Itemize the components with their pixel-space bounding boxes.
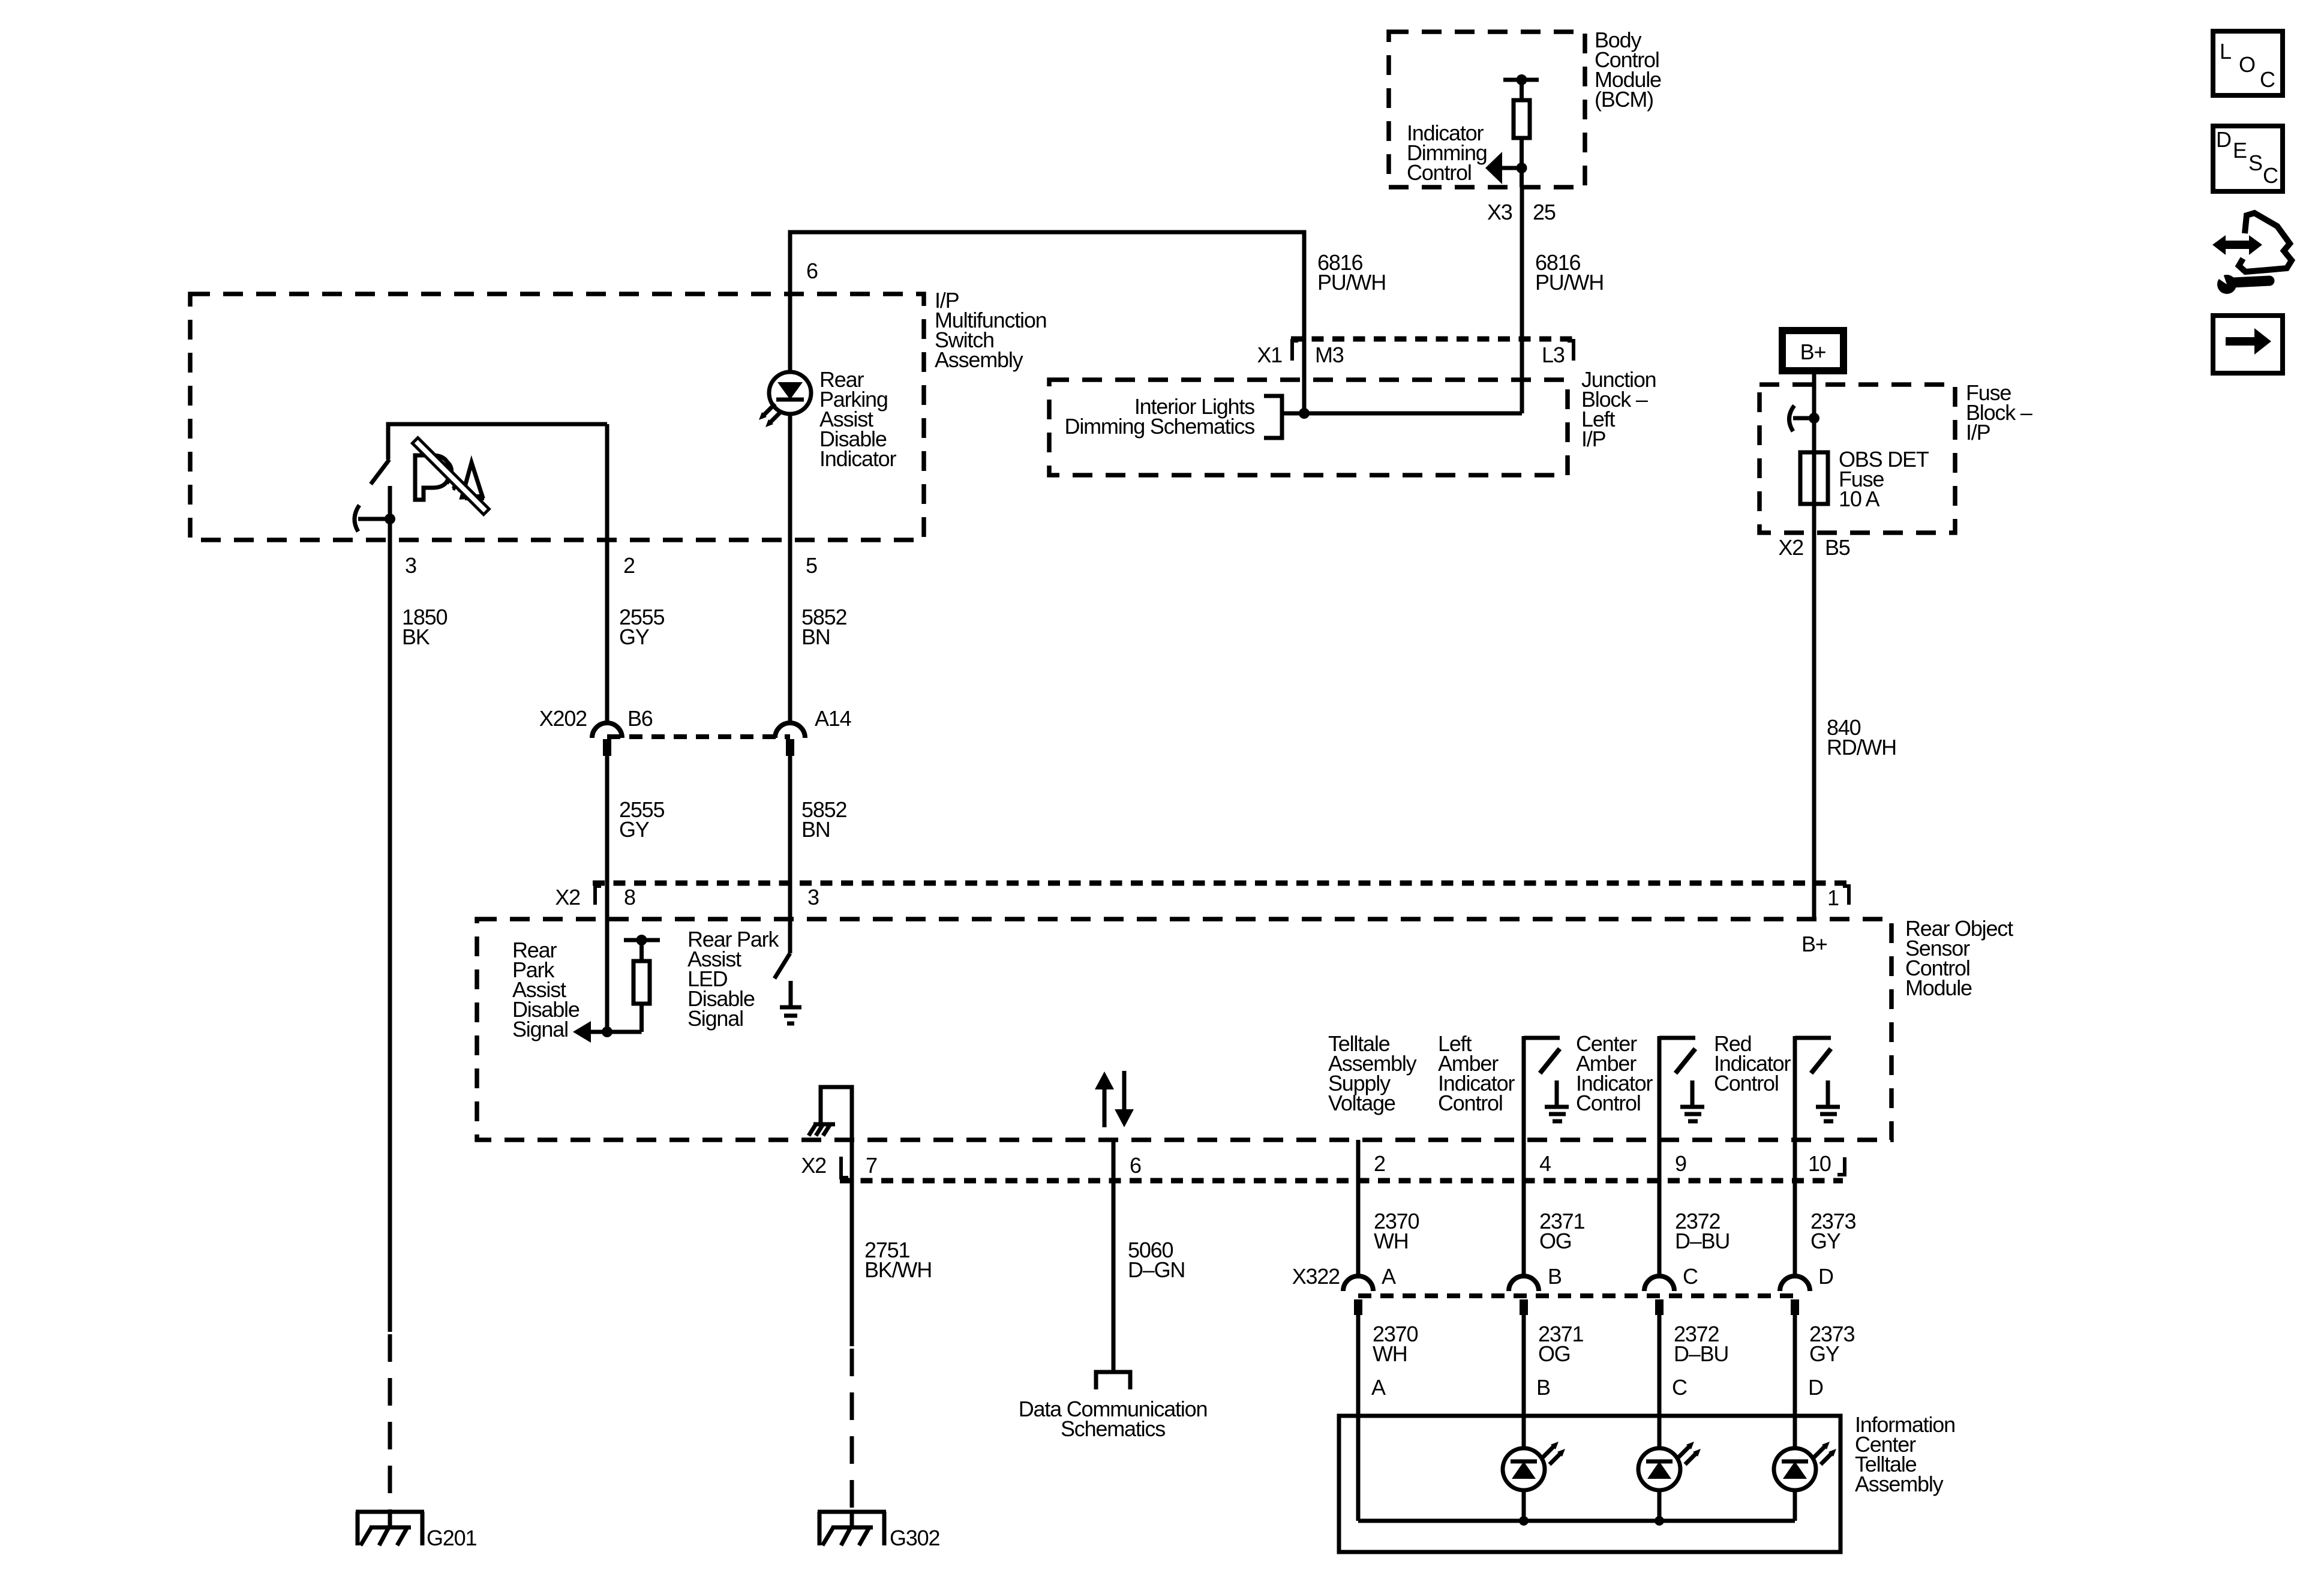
wire: center amber LED to bus bbox=[1658, 1490, 1662, 1521]
svg-text:C: C bbox=[1683, 1264, 1698, 1289]
svg-text:X2: X2 bbox=[801, 1153, 826, 1178]
wire 2370 WH: module pin 2 to connector X322 A bbox=[1356, 1140, 1361, 1277]
wire label 2555 GY (upper) bbox=[619, 605, 664, 649]
svg-text:2: 2 bbox=[1374, 1151, 1385, 1176]
svg-text:BN: BN bbox=[801, 817, 830, 842]
wire label 2371 OG (upper) bbox=[1539, 1209, 1584, 1253]
svg-text:X1: X1 bbox=[1257, 343, 1282, 367]
pin 25 label bbox=[1533, 200, 1556, 224]
pin 7 label bbox=[866, 1153, 877, 1178]
module internal ground (center amber driver) bbox=[1680, 1080, 1704, 1121]
wire label 840 RD/WH bbox=[1827, 715, 1896, 760]
svg-text:C: C bbox=[2260, 67, 2275, 92]
wire label 5852 BN (lower) bbox=[801, 797, 846, 842]
connector X202 label bbox=[539, 706, 587, 731]
wire label 6816 PU/WH (right) bbox=[1535, 250, 1604, 295]
svg-text:Control: Control bbox=[1714, 1071, 1779, 1095]
svg-text:6: 6 bbox=[806, 259, 818, 283]
svg-text:Assembly: Assembly bbox=[1855, 1472, 1944, 1496]
wire 5852 BN: LED pin 5 to connector X202 A14 bbox=[788, 414, 792, 724]
wire label 6816 PU/WH (left) bbox=[1317, 250, 1386, 295]
pin 2 label bbox=[623, 553, 635, 578]
svg-text:BK/WH: BK/WH bbox=[864, 1257, 932, 1282]
junction node at M3 wire bbox=[1299, 408, 1310, 419]
connector row X2 of module (bottom) bbox=[840, 1157, 1845, 1181]
connector X1 label bbox=[1257, 343, 1282, 367]
pin D label (X322) bbox=[1818, 1264, 1833, 1289]
svg-text:Control: Control bbox=[1407, 160, 1472, 185]
svg-text:GY: GY bbox=[1810, 1229, 1841, 1253]
svg-text:GY: GY bbox=[619, 817, 650, 842]
svg-text:A14: A14 bbox=[815, 706, 851, 731]
svg-text:A: A bbox=[1382, 1264, 1396, 1289]
pin 10 label bbox=[1808, 1151, 1831, 1176]
wire 2371 OG: X322 B to telltale assembly pin B bbox=[1522, 1315, 1526, 1448]
pin B5 label bbox=[1825, 535, 1850, 560]
pin A label (telltale assembly) bbox=[1371, 1375, 1386, 1400]
wire 5852 BN: X202 to module pin 3 bbox=[788, 756, 792, 953]
B+ pin label inside module bbox=[1801, 932, 1827, 956]
pin D label (telltale assembly) bbox=[1808, 1375, 1823, 1400]
svg-text:B: B bbox=[1536, 1375, 1550, 1400]
svg-text:BN: BN bbox=[801, 625, 830, 649]
wire 2555 GY: switch pin 2 to connector X202 B6 bbox=[605, 424, 609, 724]
B+ battery feed symbol bbox=[1782, 331, 1843, 371]
G302 label bbox=[890, 1526, 939, 1550]
wire 2372 D-BU: module pin 9 to connector X322 C bbox=[1658, 1140, 1662, 1277]
DESC hyperlink icon bbox=[2213, 126, 2283, 191]
connector end view icon bbox=[2212, 213, 2292, 294]
connector X3 label bbox=[1487, 200, 1512, 224]
Body Control Module (BCM) enclosure bbox=[1389, 32, 1585, 187]
svg-text:B: B bbox=[1548, 1264, 1562, 1289]
Rear Park Assist LED Disable Signal label bbox=[687, 927, 779, 1031]
pin 6 label (module) bbox=[1130, 1153, 1141, 1178]
forward hyperlink arrow icon bbox=[2213, 316, 2283, 373]
svg-text:OG: OG bbox=[1539, 1229, 1572, 1253]
svg-text:D–GN: D–GN bbox=[1128, 1257, 1185, 1282]
svg-text:Module: Module bbox=[1905, 975, 1972, 1000]
wire: left amber LED to bus bbox=[1522, 1490, 1526, 1521]
svg-text:D: D bbox=[2216, 127, 2231, 152]
svg-text:B6: B6 bbox=[627, 706, 653, 731]
BCM internal resistor bbox=[1503, 74, 1539, 187]
svg-text:G302: G302 bbox=[890, 1526, 939, 1550]
G201 label bbox=[427, 1526, 476, 1550]
svg-text:D–BU: D–BU bbox=[1674, 1341, 1728, 1366]
telltale assembly common bus bbox=[1358, 1516, 1795, 1526]
pin B label (telltale assembly) bbox=[1536, 1375, 1550, 1400]
pin 1 label bbox=[1827, 885, 1839, 910]
wire 1850 BK: switch pin 3 to ground G201 bbox=[388, 519, 392, 1527]
Data Communication Schematics label bbox=[1019, 1397, 1208, 1441]
pin 4 label bbox=[1539, 1151, 1551, 1176]
LOC hyperlink icon bbox=[2213, 31, 2283, 95]
wire label 2371 OG (lower) bbox=[1538, 1322, 1583, 1366]
pin 3 label bbox=[405, 553, 416, 578]
svg-text:D: D bbox=[1818, 1264, 1833, 1289]
Rear Object Sensor Control Module enclosure bbox=[477, 919, 1891, 1140]
svg-text:L3: L3 bbox=[1542, 343, 1565, 367]
pin M3 label bbox=[1315, 343, 1344, 367]
off-page bracket to Interior Lights Dimming Schematics bbox=[1264, 396, 1282, 438]
pin 6 label bbox=[806, 259, 818, 283]
in-line connector X322 C bbox=[1644, 1276, 1674, 1315]
module internal ground (red driver) bbox=[1816, 1080, 1840, 1121]
svg-text:OG: OG bbox=[1538, 1341, 1571, 1366]
svg-text:L: L bbox=[2220, 39, 2231, 64]
wire: junction block internal jumper bbox=[1282, 412, 1522, 416]
wire label 5060 D-GN bbox=[1128, 1238, 1185, 1282]
fuse OBS DET 10 A bbox=[1800, 452, 1828, 504]
svg-text:Signal: Signal bbox=[687, 1006, 743, 1031]
rear park assist disable (P with cone) icon bbox=[412, 438, 489, 515]
module internal: rear park assist LED disable switch bbox=[774, 953, 790, 978]
wire 2370 WH: X322 A to telltale assembly pin A bbox=[1356, 1315, 1361, 1521]
pin 3 label (module) bbox=[807, 885, 819, 909]
connector row X1 of junction block bbox=[1291, 339, 1575, 361]
wire label 1850 BK bbox=[402, 605, 447, 649]
svg-text:G201: G201 bbox=[427, 1526, 476, 1550]
module internal: telltale driver center amber (pin 9) bbox=[1659, 1036, 1695, 1140]
Rear Object Sensor Control Module label bbox=[1905, 916, 2013, 1000]
svg-text:1: 1 bbox=[1827, 885, 1839, 910]
ground G201 bbox=[356, 1512, 424, 1545]
off-page connector to data communication schematics bbox=[1096, 1372, 1130, 1389]
in-line connector X322 A bbox=[1343, 1276, 1373, 1315]
connector X202 dashed tie line bbox=[607, 734, 790, 739]
Interior Lights Dimming Schematics label bbox=[1065, 394, 1255, 439]
pin L3 label bbox=[1542, 343, 1565, 367]
Information Center Telltale Assembly enclosure bbox=[1339, 1416, 1840, 1552]
svg-text:B+: B+ bbox=[1800, 340, 1826, 364]
svg-text:X2: X2 bbox=[1778, 535, 1803, 560]
pin A14 label bbox=[815, 706, 851, 731]
connector X2 label (module bottom row) bbox=[801, 1153, 826, 1178]
I/P Multifunction Switch Assembly label bbox=[935, 288, 1047, 372]
telltale LED red bbox=[1774, 1442, 1836, 1490]
svg-text:X322: X322 bbox=[1292, 1264, 1340, 1289]
svg-text:WH: WH bbox=[1373, 1341, 1407, 1366]
svg-text:8: 8 bbox=[624, 885, 635, 909]
wire label 2370 WH (upper) bbox=[1374, 1209, 1419, 1253]
svg-text:B+: B+ bbox=[1801, 932, 1827, 956]
Junction Block - Left I/P label bbox=[1581, 367, 1656, 451]
wire 2373 GY: module pin 10 to connector X322 D bbox=[1793, 1140, 1797, 1277]
svg-text:X2: X2 bbox=[555, 885, 580, 909]
pin C label (telltale assembly) bbox=[1672, 1375, 1687, 1400]
svg-text:C: C bbox=[2263, 163, 2278, 188]
switch: rear parking assist disable switch bbox=[355, 424, 607, 532]
Rear Park Assist Disable Signal label bbox=[512, 938, 580, 1041]
svg-text:I/P: I/P bbox=[1966, 420, 1990, 445]
svg-text:M3: M3 bbox=[1315, 343, 1344, 367]
Information Center Telltale Assembly label bbox=[1855, 1412, 1955, 1496]
pin 9 label bbox=[1675, 1151, 1686, 1176]
Telltale Assembly Supply Voltage label bbox=[1328, 1031, 1417, 1115]
module internal: chassis ground for pin 7 bbox=[809, 1087, 852, 1140]
svg-text:Assembly: Assembly bbox=[935, 347, 1023, 372]
svg-text:Voltage: Voltage bbox=[1328, 1091, 1395, 1115]
Fuse Block - I/P label bbox=[1966, 380, 2032, 445]
svg-text:A: A bbox=[1371, 1375, 1386, 1400]
svg-text:Dimming Schematics: Dimming Schematics bbox=[1065, 414, 1255, 439]
svg-text:RD/WH: RD/WH bbox=[1827, 735, 1896, 760]
wire 5060 D-GN: module pin 6 serial data bbox=[1112, 1140, 1116, 1372]
wire label 2373 GY (upper) bbox=[1810, 1209, 1855, 1253]
Junction Block - Left I/P enclosure bbox=[1049, 380, 1568, 475]
svg-text:3: 3 bbox=[405, 553, 416, 578]
svg-text:10: 10 bbox=[1808, 1151, 1831, 1176]
wire 840 RD/WH: fuse to rear object sensor control module pin 1 bbox=[1812, 504, 1816, 919]
module internal: telltale driver left amber (pin 4) bbox=[1524, 1036, 1560, 1140]
module internal ground for LED disable switch bbox=[780, 981, 801, 1023]
pin B6 label bbox=[627, 706, 653, 731]
svg-text:WH: WH bbox=[1374, 1229, 1409, 1253]
svg-text:7: 7 bbox=[866, 1153, 877, 1178]
wire label 2555 GY (lower) bbox=[619, 797, 664, 842]
svg-text:O: O bbox=[2239, 52, 2255, 77]
pin A label (X322) bbox=[1382, 1264, 1396, 1289]
svg-text:5: 5 bbox=[806, 553, 817, 578]
svg-text:10 A: 10 A bbox=[1839, 487, 1879, 511]
svg-text:6: 6 bbox=[1130, 1153, 1141, 1178]
svg-text:C: C bbox=[1672, 1375, 1687, 1400]
svg-text:Schematics: Schematics bbox=[1061, 1416, 1165, 1441]
connector X322 label bbox=[1292, 1264, 1340, 1289]
svg-text:Control: Control bbox=[1576, 1091, 1641, 1115]
svg-text:D–BU: D–BU bbox=[1675, 1229, 1730, 1253]
ground G302 bbox=[818, 1512, 886, 1545]
wire label 2372 D-BU (lower) bbox=[1674, 1322, 1728, 1366]
Red Indicator Control label bbox=[1714, 1031, 1791, 1095]
svg-text:Control: Control bbox=[1438, 1091, 1503, 1115]
wire 2751 BK/WH: module pin 7 to ground G302 bbox=[850, 1140, 854, 1527]
svg-text:Signal: Signal bbox=[512, 1017, 568, 1041]
module internal: telltale driver red (pin 10) bbox=[1795, 1036, 1831, 1140]
I/P Multifunction Switch Assembly enclosure bbox=[190, 294, 924, 540]
module internal: pull-up resistor bbox=[624, 935, 660, 1032]
svg-text:BK: BK bbox=[402, 625, 430, 649]
svg-text:25: 25 bbox=[1533, 200, 1556, 224]
pin B label (X322) bbox=[1548, 1264, 1562, 1289]
wire label 2370 WH (lower) bbox=[1373, 1322, 1418, 1366]
module internal: serial data up arrow bbox=[1095, 1071, 1114, 1127]
svg-text:X3: X3 bbox=[1487, 200, 1512, 224]
Fuse Block - I/P enclosure bbox=[1759, 385, 1955, 533]
Body Control Module (BCM) label bbox=[1595, 28, 1661, 112]
in-line connector X322 B bbox=[1509, 1276, 1539, 1315]
connector X322 dashed tie line bbox=[1358, 1293, 1795, 1298]
wire 2371 OG: module pin 4 to connector X322 B bbox=[1522, 1140, 1526, 1277]
svg-text:3: 3 bbox=[807, 885, 819, 909]
wire: B+ into fuse block bbox=[1812, 374, 1816, 507]
LED: rear parking assist disable indicator bbox=[759, 372, 811, 427]
svg-text:9: 9 bbox=[1675, 1151, 1686, 1176]
module internal ground (left amber driver) bbox=[1545, 1080, 1569, 1121]
svg-text:E: E bbox=[2233, 138, 2247, 163]
svg-text:4: 4 bbox=[1539, 1151, 1551, 1176]
svg-text:D: D bbox=[1808, 1375, 1823, 1400]
telltale LED left amber bbox=[1503, 1442, 1565, 1490]
OBS DET Fuse 10 A label bbox=[1839, 447, 1929, 511]
connector X2 label (fuse block) bbox=[1778, 535, 1803, 560]
wire 2373 GY: X322 D to telltale assembly pin D bbox=[1793, 1315, 1797, 1448]
BCM indicator dimming control arrow bbox=[1485, 152, 1527, 184]
wire label 2373 GY (lower) bbox=[1809, 1322, 1854, 1366]
pin 2 label (module) bbox=[1374, 1151, 1385, 1176]
connector X2 label (module top row) bbox=[555, 885, 580, 909]
svg-text:I/P: I/P bbox=[1581, 427, 1606, 451]
svg-text:2: 2 bbox=[623, 553, 635, 578]
module internal: junction node pin 8 line bbox=[602, 1026, 612, 1037]
in-line connector X202 B6 bbox=[592, 723, 622, 756]
telltale LED center amber bbox=[1638, 1442, 1701, 1490]
wire label 2372 D-BU (upper) bbox=[1675, 1209, 1730, 1253]
wire label 5852 BN (upper) bbox=[801, 605, 846, 649]
pin 8 label bbox=[624, 885, 635, 909]
wire: red LED to bus bbox=[1793, 1490, 1797, 1521]
svg-text:GY: GY bbox=[1809, 1341, 1840, 1366]
module internal: serial data down arrow bbox=[1115, 1071, 1134, 1127]
svg-text:S: S bbox=[2248, 151, 2262, 175]
module internal: rear park assist disable signal arrow bbox=[573, 1021, 642, 1043]
svg-text:PU/WH: PU/WH bbox=[1317, 270, 1386, 295]
pin 5 label bbox=[806, 553, 817, 578]
Center Amber Indicator Control label bbox=[1576, 1031, 1653, 1115]
bus bar contact hook in fuse block bbox=[1789, 406, 1819, 431]
in-line connector X322 D bbox=[1780, 1276, 1810, 1315]
svg-text:PU/WH: PU/WH bbox=[1535, 270, 1604, 295]
Indicator Dimming Control label bbox=[1407, 121, 1487, 185]
wire 2555 GY: X202 to module pin 8 bbox=[605, 756, 609, 1032]
wire label 2751 BK/WH bbox=[864, 1238, 932, 1282]
svg-text:GY: GY bbox=[619, 625, 650, 649]
Left Amber Indicator Control label bbox=[1438, 1031, 1515, 1115]
in-line connector X202 A14 bbox=[775, 723, 805, 756]
wire: BCM X3-25 down to junction block L3 bbox=[1520, 187, 1524, 413]
svg-text:X202: X202 bbox=[539, 706, 587, 731]
Rear Parking Assist Disable Indicator label bbox=[819, 367, 896, 471]
svg-text:B5: B5 bbox=[1825, 535, 1850, 560]
wire: LED pin 6 up and across to junction block M3 bbox=[790, 232, 1304, 413]
svg-text:(BCM): (BCM) bbox=[1595, 87, 1653, 112]
connector row X2 of rear object sensor control module (top) bbox=[593, 883, 1850, 905]
pin C label (X322) bbox=[1683, 1264, 1698, 1289]
svg-text:Indicator: Indicator bbox=[819, 446, 896, 471]
wire 2372 D-BU: X322 C to telltale assembly pin C bbox=[1658, 1315, 1662, 1448]
